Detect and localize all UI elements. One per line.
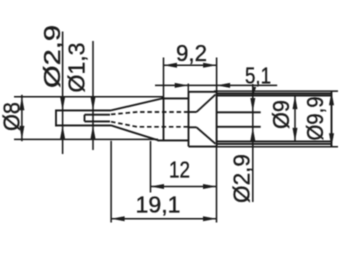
arrow 9,2 left [164, 63, 178, 68]
svg-text:Ø8: Ø8 [0, 102, 25, 131]
svg-text:19,1: 19,1 [136, 192, 181, 218]
12 extension left [150, 141, 152, 193]
cone end edge [163, 98, 165, 140]
arrow 5,1 drop (down) [252, 87, 256, 94]
arrow 19,1 right [203, 216, 217, 221]
Ø9,9 dimension line / tube end face [331, 92, 333, 147]
bore Ø2.9 top line right of collar [217, 111, 261, 113]
arrow Ø1,3 top (down onto bore top) [91, 97, 96, 111]
arrow 12 left [151, 184, 165, 189]
internal funnel bottom horizontal [189, 126, 197, 128]
collar bottom edge [189, 146, 217, 148]
svg-text:Ø9: Ø9 [268, 100, 294, 129]
inner bore end [84, 115, 86, 122]
tip tube left face [55, 110, 57, 127]
bore Ø2.9 bottom line right of collar [217, 126, 261, 128]
Ø9 dimension line [294, 96, 296, 142]
9,2 extension left [163, 58, 165, 99]
tip tube bottom edge [56, 124, 111, 126]
svg-text:12: 12 [169, 157, 190, 183]
19,1 extension left [110, 141, 112, 223]
19,1 dimension line [111, 218, 216, 220]
Ø1,3 dimension line [92, 41, 94, 150]
big tube bottom edge [217, 143, 332, 145]
arrow Ø8 bottom (down) [19, 126, 24, 139]
Ø9,9 extension line bottom [217, 146, 338, 148]
12 dimension line [151, 186, 217, 188]
big tube top edge [217, 92, 332, 94]
Ø8 section top edge [162, 97, 189, 99]
Ø2,9 top dimension line [62, 32, 64, 155]
arrow Ø9,9 bottom (down) [329, 133, 334, 147]
collar left face extension up [187, 84, 189, 93]
arrow Ø8 top (up) [19, 97, 24, 111]
svg-text:Ø2,9: Ø2,9 [229, 154, 255, 203]
arrow Ø9,9 top (up) [329, 92, 334, 106]
cone bottom diagonal [111, 125, 159, 140]
internal funnel top horizontal [189, 111, 197, 113]
cone top diagonal [111, 98, 163, 110]
inner bore Ø1.3 bottom line [85, 120, 111, 122]
collar left face [188, 92, 190, 147]
arrow Ø1,3 bottom (up onto bore bottom) [91, 125, 96, 138]
arrow 19,1 left [111, 216, 125, 221]
12 / 19,1 extension right [216, 147, 218, 223]
arrow 5,1 right [175, 83, 189, 88]
internal funnel top diagonal [197, 95, 216, 113]
5,1 dimension line [155, 84, 277, 86]
svg-text:Ø2,9: Ø2,9 [39, 25, 65, 88]
arrow Ø2,9 bottom-label lower (up onto bore) [250, 128, 255, 142]
arrow Ø9 bottom (down) [293, 128, 298, 141]
svg-text:Ø1,3: Ø1,3 [64, 43, 90, 93]
Ø8 section bottom edge [158, 139, 189, 141]
Ø8 extension line bottom [14, 138, 158, 140]
tip tube top edge [56, 109, 111, 111]
Ø8 dimension line [21, 95, 23, 141]
internal funnel bottom diagonal [197, 127, 216, 144]
9,2 dimension line [164, 64, 217, 66]
Ø8 extension line top [14, 96, 164, 98]
Ø9,9 extension line top [214, 90, 338, 92]
arrow 9,2 right [203, 63, 217, 68]
big tube inner top Ø9 [217, 95, 332, 97]
arrow Ø9 top (up) [293, 96, 298, 110]
hidden bore dashed top (taper then straight) [111, 112, 189, 114]
svg-text:Ø9,9: Ø9,9 [302, 97, 328, 141]
svg-text:9,2: 9,2 [176, 40, 207, 66]
arrow Ø2,9 bottom (up onto tube bottom) [60, 125, 65, 138]
Ø2,9 bottom dimension line [252, 84, 254, 202]
arrow 5,1 left [217, 83, 231, 88]
svg-text:5,1: 5,1 [245, 63, 271, 89]
inner bore Ø1.3 top line [85, 114, 111, 116]
hidden bore dashed bottom (taper then straight) [111, 122, 189, 127]
arrow Ø2,9 bottom-label upper (down onto bore) [250, 98, 255, 112]
collar top edge [189, 91, 217, 93]
arrow 12 right [203, 184, 217, 189]
big tube inner bottom Ø9 [217, 140, 332, 142]
9,2 / 5,1 extension at collar face up [216, 58, 218, 93]
arrow Ø2,9 top (down onto tube top) [60, 97, 65, 111]
collar right face [216, 92, 218, 147]
